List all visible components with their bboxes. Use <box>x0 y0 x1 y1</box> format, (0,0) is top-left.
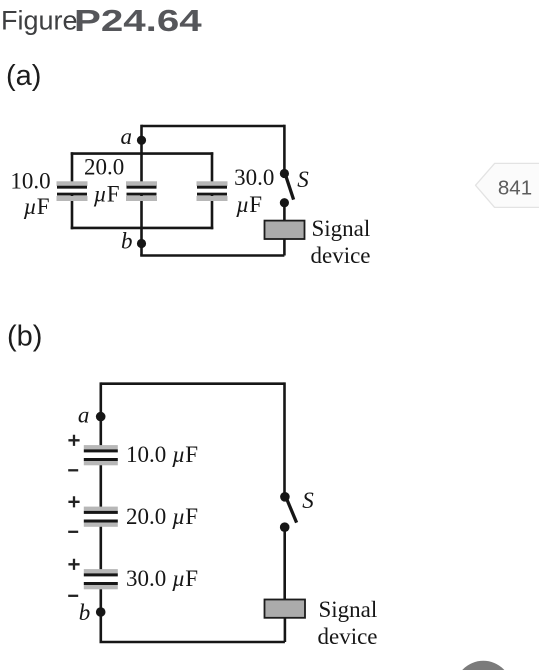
capacitor C2 value label "20.0 µF" <box>84 155 124 207</box>
svg-text:S: S <box>297 167 309 192</box>
svg-text:10.0 µF: 10.0 µF <box>126 442 198 467</box>
wire: (a) parallel box top rail <box>71 152 214 155</box>
capacitor C5 polarity marks + and - <box>68 496 79 532</box>
svg-text:µF: µF <box>236 192 262 217</box>
svg-text:841: 841 <box>498 177 532 200</box>
svg-text:10.0: 10.0 <box>10 169 50 194</box>
wire: (b) node-a riser / capacitor C4 top lead <box>100 382 103 449</box>
switch S (a): blade <box>286 177 294 200</box>
capacitor C1 (a) leads on left rail <box>71 152 74 229</box>
node a (b): junction dot <box>96 412 106 422</box>
svg-text:20.0 µF: 20.0 µF <box>126 504 198 529</box>
svg-text:µF: µF <box>23 194 49 219</box>
svg-text:device: device <box>311 243 371 268</box>
capacitor C1 10.0 uF (a): dielectric shading <box>57 181 88 201</box>
wire: (b) link C4 bottom to C5 top <box>100 461 103 512</box>
signal device (b): box <box>265 600 306 618</box>
wire: (a) parallel box bottom rail <box>71 227 214 230</box>
wire: (b) switch bottom to signal device <box>283 527 286 600</box>
capacitor C6 30.0 uF (b): plates <box>84 573 118 585</box>
capacitor C6 polarity marks + and - <box>68 559 79 596</box>
switch S (a): top contact dot <box>280 169 289 178</box>
wire: (b) right rail upper segment to switch <box>283 382 286 496</box>
svg-text:a: a <box>78 403 90 428</box>
node b (a): junction dot <box>137 239 146 248</box>
capacitor C3 30.0 uF (a): plates <box>197 186 227 196</box>
capacitor C4 10.0 uF (b): dielectric shading <box>84 445 118 465</box>
svg-text:device: device <box>318 624 378 649</box>
capacitor C2 20.0 uF (a): dielectric shading <box>126 181 157 201</box>
wire: (a) switch bottom to signal device <box>283 203 286 222</box>
svg-text:µF: µF <box>94 182 120 207</box>
capacitor C5 20.0 uF (b): plates <box>84 511 118 523</box>
wire: (a) node-a riser / capacitor C2 top lead <box>140 125 143 186</box>
svg-text:20.0: 20.0 <box>84 155 124 180</box>
capacitor C1 10.0 uF (a): plates <box>57 186 87 196</box>
wire: (a) top wire from node-a riser to right branch <box>142 125 285 128</box>
capacitor C4 10.0 uF (b): plates <box>84 449 118 461</box>
switch S (b): blade <box>287 500 297 523</box>
capacitor C4 polarity marks + and - <box>68 435 79 471</box>
svg-text:(a): (a) <box>6 60 41 92</box>
capacitor C6 30.0 uF (b): dielectric shading <box>84 569 118 589</box>
capacitor C3 30.0 uF (a): dielectric shading <box>197 181 228 201</box>
wire: (a) right branch upper segment down to switch <box>283 125 286 174</box>
svg-text:30.0 µF: 30.0 µF <box>126 566 198 591</box>
svg-text:S: S <box>302 488 314 513</box>
svg-text:b: b <box>79 600 91 625</box>
svg-text:P24.64: P24.64 <box>74 3 202 38</box>
wire: (a) signal device to bottom wire <box>283 238 286 256</box>
wire: (b) signal device to bottom wire <box>284 617 287 642</box>
svg-text:Signal: Signal <box>312 216 371 241</box>
wire: (b) capacitor C6 bottom lead through node b <box>100 585 103 642</box>
svg-text:a: a <box>121 124 133 149</box>
capacitor C2 20.0 uF (a): plates <box>127 186 157 196</box>
switch S (b): bottom contact dot <box>280 522 290 532</box>
switch S (a): bottom contact dot <box>280 198 289 207</box>
svg-text:Figure: Figure <box>1 6 78 36</box>
capacitor C5 20.0 uF (b): dielectric shading <box>84 507 118 527</box>
wire: (a) capacitor C2 bottom lead through node b <box>140 196 143 256</box>
switch S (b): top contact dot <box>280 492 290 502</box>
wire: (b) link C5 bottom to C6 top <box>100 522 103 574</box>
node a (a): junction dot <box>137 136 146 145</box>
wire: (b) bottom return wire <box>100 641 285 644</box>
signal device (a): box <box>265 221 305 239</box>
page number badge "841" <box>476 163 539 207</box>
svg-text:Signal: Signal <box>319 597 378 622</box>
capacitor C3 value label "30.0 µF" <box>234 165 274 217</box>
svg-text:b: b <box>121 228 133 253</box>
svg-text:30.0: 30.0 <box>234 165 274 190</box>
capacitor C1 value label "10.0 µF" <box>10 169 50 220</box>
capacitor C3 (a) leads on right rail <box>211 152 214 229</box>
floating action button (partial circle at bottom right) <box>455 661 512 670</box>
svg-text:(b): (b) <box>7 321 42 353</box>
node b (b): junction dot <box>96 607 106 617</box>
wire: (a) bottom return wire <box>140 254 284 257</box>
wire: (b) top wire <box>101 382 285 385</box>
